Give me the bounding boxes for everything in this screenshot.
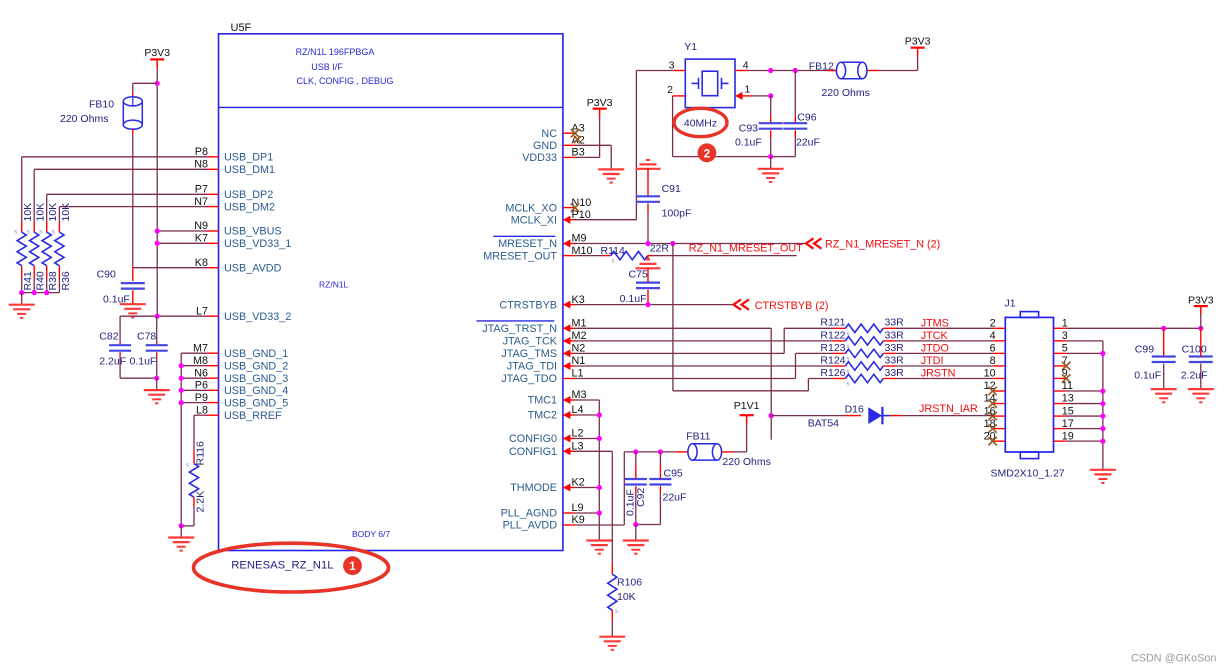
wire CONFIG0 row — [575, 436, 602, 441]
pin M9 MRESET_N — [498, 233, 586, 251]
svg-text:0.1uF: 0.1uF — [1134, 369, 1161, 381]
wire JTAG_TCK row — [575, 340, 833, 342]
J1 pin 16 — [984, 405, 1006, 420]
net label JRSTN_IAR — [919, 403, 978, 415]
pin M2 JTAG_TCK — [503, 330, 587, 348]
wire THMODE row — [575, 485, 602, 490]
resistor R122 33R — [820, 329, 904, 350]
second no-connect X near pin A2 — [574, 136, 581, 143]
svg-text:C82: C82 — [99, 331, 118, 343]
svg-text:3: 3 — [1062, 330, 1068, 342]
pin B3 VDD33 — [522, 147, 585, 165]
capacitor C82 2.2uF — [99, 331, 131, 368]
svg-text:22R: 22R — [650, 243, 670, 255]
svg-text:FB11: FB11 — [686, 430, 710, 442]
wire USB_GND_1 row — [181, 352, 206, 354]
IC title text — [296, 47, 394, 86]
ground below C100 — [1188, 389, 1214, 402]
svg-text:R36: R36 — [60, 271, 72, 290]
svg-text:10: 10 — [984, 368, 996, 380]
wire USB_GND_5 row — [179, 400, 207, 405]
power P1V1 — [734, 400, 760, 452]
svg-text:RZ/N1L 196FPBGA: RZ/N1L 196FPBGA — [296, 47, 375, 57]
svg-text:JTAG_TDI: JTAG_TDI — [507, 361, 557, 373]
ground below USB_GND bus — [168, 538, 194, 551]
svg-text:2: 2 — [990, 318, 996, 330]
pin P10 MCLK_XI — [511, 209, 591, 227]
wire CONFIG1 to R106 — [575, 451, 612, 563]
J1 footprint label SMD2X10_1.27 — [991, 468, 1065, 480]
wire JTAG_TRST_N to D16 node — [575, 328, 771, 439]
pin L2 CONFIG0 — [509, 428, 584, 446]
capacitor C95 22uF — [636, 452, 687, 525]
svg-text:C96: C96 — [797, 112, 816, 124]
svg-text:2.2uF: 2.2uF — [1181, 369, 1208, 381]
svg-text:C91: C91 — [662, 183, 681, 195]
pin A2 GND — [533, 135, 585, 153]
svg-text:C90: C90 — [97, 269, 116, 281]
wire Y1 pin2 loop — [673, 96, 771, 157]
svg-text:JTCK: JTCK — [921, 330, 949, 342]
svg-text:C99: C99 — [1135, 344, 1154, 356]
pin K3 CTRSTBYB — [499, 294, 584, 312]
J1 pin 6 — [990, 343, 1006, 355]
svg-text:USB_DP2: USB_DP2 — [224, 189, 273, 201]
pin N8 USB_DM1 — [194, 159, 275, 177]
svg-text:2: 2 — [667, 84, 673, 96]
pin P9 USB_GND_5 — [195, 392, 288, 410]
svg-text:10K: 10K — [47, 203, 59, 222]
svg-text:USB_GND_4: USB_GND_4 — [224, 385, 288, 397]
J1 pin 5 — [1054, 343, 1068, 355]
svg-text:0.1uF: 0.1uF — [620, 293, 647, 305]
wire J1 pin1 to P3V3 rail — [1066, 326, 1204, 331]
svg-text:2: 2 — [704, 148, 710, 160]
wire PLL_AVDD to P1V1 rail — [575, 452, 624, 525]
capacitor C96 22uF — [771, 71, 820, 157]
svg-text:s: s — [27, 230, 30, 236]
J1 pin 10 — [984, 368, 1006, 380]
wire J1 pin3 to ground bus — [1066, 341, 1103, 470]
off-page connector CTRSTBYB — [734, 299, 829, 311]
svg-text:CTRSTBYB (2): CTRSTBYB (2) — [755, 300, 829, 312]
svg-text:USB_DM2: USB_DM2 — [224, 201, 275, 213]
wire USB_GND bus vertical — [180, 353, 182, 526]
wire to ground below crystal caps — [770, 157, 772, 169]
junction C93 bottom — [768, 154, 773, 159]
pin K8 USB_AVDD — [195, 257, 282, 275]
svg-text:s: s — [847, 382, 850, 388]
svg-text:USB_AVDD: USB_AVDD — [224, 262, 282, 274]
wire TMC1 row — [575, 399, 599, 401]
Y1 pin number labels — [667, 60, 750, 96]
svg-text:C92: C92 — [635, 488, 647, 507]
wire R116 bottom to ground bus — [179, 523, 194, 528]
wire PLL_AGND row — [575, 510, 602, 515]
node junction FB10 branch — [155, 81, 160, 86]
svg-text:JTDI: JTDI — [921, 355, 944, 367]
svg-text:s: s — [186, 463, 189, 469]
wire JRSTN_IAR to J1 pin16 — [901, 415, 993, 417]
wire pull-resistor bottom rail — [22, 292, 60, 294]
J1 pin 17 — [1054, 418, 1074, 430]
inverted ground above C75 — [636, 256, 661, 269]
svg-text:NC: NC — [541, 128, 557, 140]
svg-text:MRESET_OUT: MRESET_OUT — [483, 250, 557, 262]
svg-text:USB_VD33_2: USB_VD33_2 — [224, 311, 291, 323]
svg-text:THMODE: THMODE — [510, 482, 557, 494]
wire MRESET_N row M9 — [575, 241, 806, 246]
resistor R106 10K — [608, 563, 643, 636]
pin L1 JTAG_TDO — [501, 368, 583, 386]
ferrite bead FB10 — [123, 97, 142, 131]
svg-text:USB_GND_2: USB_GND_2 — [224, 360, 288, 372]
svg-text:JTAG_TMS: JTAG_TMS — [501, 348, 557, 360]
svg-text:0.1uF: 0.1uF — [735, 137, 762, 149]
svg-text:s: s — [39, 230, 42, 236]
power P3V3 above VDD33 — [587, 97, 613, 118]
pin N10 MCLK_XO — [505, 197, 591, 215]
svg-text:Y1: Y1 — [684, 41, 697, 53]
wire JTDO to J1 — [896, 352, 993, 354]
IC BODY 6/7 text — [352, 529, 390, 539]
pin N2 JTAG_TMS — [501, 343, 585, 361]
wire CTRSTBYB row K3 — [575, 302, 734, 307]
capacitor C90 — [97, 269, 145, 306]
junction TRST bus and D16 row — [769, 413, 774, 418]
annotation badge 2 — [698, 143, 717, 162]
svg-text:GND: GND — [533, 140, 557, 152]
svg-text:C93: C93 — [739, 123, 758, 135]
junction C92 C95 rail — [633, 522, 638, 527]
svg-text:USB_DP1: USB_DP1 — [224, 152, 273, 164]
svg-text:R38: R38 — [47, 271, 59, 290]
wire J1 pin 5 to ground bus — [1066, 351, 1106, 356]
ground below C82 C78 — [144, 390, 170, 403]
svg-text:P1V1: P1V1 — [734, 400, 760, 412]
J1 pin 9 — [1054, 368, 1071, 383]
ground below R106 — [599, 637, 625, 650]
wire USB_VD33_1 row — [155, 241, 207, 246]
overbar JTAG_TRST_N — [477, 320, 555, 322]
svg-text:220 Ohms: 220 Ohms — [722, 456, 770, 468]
svg-text:SMD2X10_1.27: SMD2X10_1.27 — [991, 468, 1065, 480]
wire JTAG_TDI row — [575, 365, 833, 367]
pin K2 THMODE — [510, 477, 585, 495]
svg-text:JTMS: JTMS — [921, 317, 949, 329]
svg-text:1: 1 — [745, 84, 751, 96]
wire USB_RREF elbow — [194, 415, 207, 450]
svg-text:USB_RREF: USB_RREF — [224, 410, 282, 422]
pin L9 PLL_AGND — [501, 502, 584, 520]
svg-text:USB_VBUS: USB_VBUS — [224, 226, 282, 238]
svg-text:P3V3: P3V3 — [587, 97, 613, 109]
wire GND pin A2 to ground — [575, 145, 611, 169]
svg-text:R126: R126 — [820, 367, 845, 379]
wire TMC2 row — [575, 412, 602, 417]
capacitor C78 0.1uF — [130, 331, 168, 368]
resistor R123 33R — [820, 342, 904, 363]
svg-text:USB_GND_5: USB_GND_5 — [224, 397, 288, 409]
svg-text:JTAG_TDO: JTAG_TDO — [501, 373, 557, 385]
svg-text:USB_GND_1: USB_GND_1 — [224, 348, 288, 360]
svg-text:C75: C75 — [629, 268, 648, 280]
ground below C92 C95 — [623, 541, 649, 554]
wire USB_GND_4 row — [179, 388, 207, 393]
J1 pin 4 — [990, 330, 1006, 342]
svg-text:s: s — [52, 230, 55, 236]
ground below J1 bus — [1090, 470, 1116, 483]
svg-text:R41: R41 — [22, 271, 34, 290]
pin M7 USB_GND_1 — [193, 342, 288, 360]
svg-text:4: 4 — [990, 330, 996, 342]
svg-text:220 Ohms: 220 Ohms — [821, 87, 869, 99]
capacitor C75 0.1uF — [620, 268, 660, 305]
svg-text:RENESAS_RZ_N1L: RENESAS_RZ_N1L — [231, 560, 333, 572]
pin M10 MRESET_OUT — [483, 245, 592, 262]
svg-text:33R: 33R — [885, 342, 905, 354]
wire FB10 branch horizontal — [133, 82, 157, 84]
pin M3 TMC1 — [528, 389, 587, 407]
pin K9 PLL_AVDD — [503, 514, 585, 532]
wire JTAG_TMS jog up — [575, 328, 833, 353]
svg-text:1: 1 — [349, 561, 356, 573]
wire J1 pin 19 to ground bus — [1066, 439, 1106, 444]
wire R41 riser to pin row — [22, 157, 207, 222]
resistor R121 33R — [820, 317, 904, 338]
wire D16 anode — [771, 415, 861, 417]
svg-text:22uF: 22uF — [663, 491, 687, 503]
resistor R36 10K — [52, 203, 72, 293]
wire P3V3 vertical rail — [156, 68, 158, 316]
svg-text:FB10: FB10 — [89, 99, 114, 111]
wire C78 top lead — [156, 316, 158, 345]
wire JTCK to J1 — [896, 340, 993, 342]
FB10 label — [60, 99, 114, 126]
J1 pin 8 — [990, 355, 1006, 367]
pin N1 JTAG_TDI — [507, 355, 586, 373]
svg-text:CONFIG1: CONFIG1 — [509, 446, 557, 458]
wire MRESET_N branch down to JRSTN jog — [673, 244, 809, 391]
capacitor C100 2.2uF — [1181, 328, 1213, 389]
svg-text:R122: R122 — [820, 329, 845, 341]
svg-text:6: 6 — [990, 343, 996, 355]
ground below C90 — [120, 304, 146, 317]
svg-text:s: s — [612, 259, 615, 265]
svg-text:P3V3: P3V3 — [1188, 294, 1214, 306]
net label JRSTN — [921, 368, 956, 380]
svg-text:10K: 10K — [35, 203, 47, 222]
svg-text:R114: R114 — [601, 245, 625, 257]
IC U5F RZ/N1L body — [219, 34, 563, 551]
svg-text:JTAG_TCK: JTAG_TCK — [503, 336, 558, 348]
svg-text:U5F: U5F — [231, 22, 252, 34]
wire JTAG_TDO jog up — [575, 353, 833, 378]
svg-text:P3V3: P3V3 — [144, 47, 170, 59]
svg-text:s: s — [14, 230, 17, 236]
svg-text:C100: C100 — [1182, 344, 1207, 356]
ground below R41 — [9, 305, 35, 318]
svg-text:C95: C95 — [664, 467, 683, 479]
ground below C93 C96 — [758, 169, 784, 182]
J1 pin 15 — [1054, 405, 1074, 417]
ground below TMC bus — [586, 541, 612, 554]
wire P1V1 rail — [624, 449, 688, 454]
wire FB10 top lead — [132, 83, 134, 97]
wire JTMS to J1 — [896, 327, 993, 329]
svg-text:100pF: 100pF — [662, 207, 692, 219]
wire rail to ground below C78 — [156, 378, 158, 390]
power P3V3 top right — [905, 36, 931, 71]
J1 pin 13 — [1054, 393, 1074, 405]
net label RZ_N1_MRESET_OUT — [689, 243, 803, 255]
wire rail to ground — [21, 293, 23, 305]
net label JTCK — [921, 330, 949, 342]
J1 pin 20 — [984, 430, 1006, 445]
wire C82 bottom lead — [120, 352, 157, 378]
svg-text:0.1uF: 0.1uF — [130, 356, 157, 368]
svg-text:RZ_N1_MRESET_OUT: RZ_N1_MRESET_OUT — [689, 243, 803, 255]
pin N9 USB_VBUS — [194, 220, 281, 238]
svg-text:R123: R123 — [820, 342, 845, 354]
capacitor C99 0.1uF — [1134, 328, 1175, 389]
inverted ground above C91 — [636, 160, 661, 169]
svg-text:USB I/F: USB I/F — [311, 62, 343, 72]
wire USB_VD33_2 row L7 — [120, 314, 206, 319]
resistor R126 33R — [820, 367, 904, 388]
J1 pin 12 — [984, 380, 1006, 395]
svg-text:R116: R116 — [195, 441, 207, 465]
wire J1 pin 17 to ground bus — [1066, 426, 1106, 431]
pin L4 TMC2 — [528, 404, 584, 422]
svg-text:3: 3 — [669, 60, 675, 72]
wire R40 riser to pin row — [34, 169, 206, 221]
svg-text:PLL_AVDD: PLL_AVDD — [503, 520, 558, 532]
wire Y1 pin1 — [735, 92, 773, 100]
pin P6 USB_GND_4 — [195, 380, 288, 398]
wire USB_AVDD row — [133, 267, 207, 269]
svg-text:R40: R40 — [35, 271, 47, 290]
off-page connector RZ_N1_MRESET_N — [806, 238, 940, 250]
J1 pin 7 — [1054, 355, 1071, 370]
wire Y1 pin4 row — [735, 68, 837, 73]
resistor R124 33R — [820, 354, 904, 375]
svg-text:4: 4 — [743, 60, 749, 72]
wire J1 pin 11 to ground bus — [1066, 388, 1106, 393]
svg-text:MCLK_XI: MCLK_XI — [511, 214, 557, 226]
watermark CSDN — [1131, 653, 1216, 665]
annotation ellipse 40MHz — [674, 108, 727, 136]
svg-text:10K: 10K — [617, 591, 636, 603]
svg-text:R121: R121 — [820, 317, 845, 329]
svg-text:33R: 33R — [885, 367, 905, 379]
annotation ellipse RENESAS_RZ_N1L — [194, 543, 389, 592]
wire USB_GND_3 row — [179, 376, 207, 381]
pin L7 USB_VD33_2 — [196, 305, 291, 323]
J1 pin 18 — [984, 418, 1006, 433]
wire J1 pin 13 to ground bus — [1066, 401, 1106, 406]
svg-text:22uF: 22uF — [796, 137, 820, 149]
svg-text:33R: 33R — [885, 329, 905, 341]
svg-text:R106: R106 — [617, 577, 642, 589]
crystal Y1 body — [684, 41, 735, 108]
junction dots pull-down rail — [19, 290, 49, 295]
svg-text:8: 8 — [990, 355, 996, 367]
pin N6 USB_GND_3 — [194, 367, 288, 385]
ferrite bead FB11 — [686, 430, 771, 468]
svg-text:40MHz: 40MHz — [684, 118, 717, 130]
svg-text:USB_DM1: USB_DM1 — [224, 164, 275, 176]
pin M8 USB_GND_2 — [193, 355, 288, 373]
svg-text:RZ/N1L: RZ/N1L — [319, 280, 349, 290]
capacitor C92 0.1uF — [625, 452, 648, 525]
wire R38 riser to pin row — [47, 194, 207, 221]
net label JTDO — [921, 343, 949, 355]
wire bus to ground — [180, 526, 182, 538]
svg-text:VDD33: VDD33 — [522, 152, 557, 164]
wire JRSTN to J1 — [896, 378, 993, 380]
wire MRESET_OUT to R114 — [575, 255, 611, 257]
wire C78 bottom lead — [156, 352, 158, 378]
wire caps to ground — [635, 525, 637, 541]
pin L3 CONFIG1 — [509, 441, 584, 459]
svg-text:220 Ohms: 220 Ohms — [60, 113, 108, 125]
J1 pin 3 — [1054, 330, 1068, 342]
J1 pin 1 — [1054, 318, 1068, 330]
net label JTMS — [921, 317, 949, 329]
svg-text:R124: R124 — [820, 354, 845, 366]
svg-text:TMC2: TMC2 — [528, 410, 557, 422]
resistor R40 10K — [27, 203, 47, 293]
svg-text:2.2uF: 2.2uF — [99, 356, 126, 368]
svg-text:TMC1: TMC1 — [528, 395, 557, 407]
power P3V3 top-left — [144, 47, 170, 68]
wire C90 top lead — [132, 268, 134, 281]
J1 pin 19 — [1054, 430, 1074, 442]
svg-text:MCLK_XO: MCLK_XO — [505, 202, 557, 214]
annotation badge 1 — [343, 556, 362, 575]
pin L8 USB_RREF — [196, 404, 282, 422]
capacitor C91 100pF — [636, 169, 691, 244]
overbar MRESET_N — [493, 235, 555, 237]
wire USB_GND_2 row — [179, 363, 207, 368]
svg-text:33R: 33R — [885, 317, 905, 329]
svg-text:MRESET_N: MRESET_N — [498, 238, 557, 250]
svg-text:JTDO: JTDO — [921, 343, 949, 355]
J1 pin 11 — [1054, 380, 1074, 392]
svg-text:JTAG_TRST_N: JTAG_TRST_N — [482, 323, 557, 335]
capacitor C93 0.1uF — [735, 96, 783, 157]
wire JTDI to J1 — [896, 365, 993, 367]
wire R36 riser to pin row — [59, 207, 206, 222]
svg-text:C78: C78 — [137, 331, 156, 343]
svg-text:USB_VD33_1: USB_VD33_1 — [224, 238, 291, 250]
junction C82 C78 rail — [154, 376, 159, 381]
resistor R38 10K — [39, 203, 59, 293]
ferrite bead FB12 — [809, 61, 918, 100]
svg-text:33R: 33R — [885, 354, 905, 366]
wire Y1 pin3 — [636, 70, 685, 72]
wire MCLK_XI riser — [575, 71, 636, 220]
resistor R41 10K — [14, 203, 34, 293]
svg-text:10K: 10K — [60, 203, 72, 222]
svg-text:10K: 10K — [22, 203, 34, 222]
svg-text:JRSTN_IAR: JRSTN_IAR — [919, 403, 978, 415]
svg-text:CSDN @GKoSon: CSDN @GKoSon — [1131, 653, 1216, 665]
connector J1 body — [1005, 298, 1054, 459]
wire FB10 bottom lead down to USB_AVDD corner — [132, 129, 134, 267]
J1 pin 14 — [984, 393, 1006, 408]
